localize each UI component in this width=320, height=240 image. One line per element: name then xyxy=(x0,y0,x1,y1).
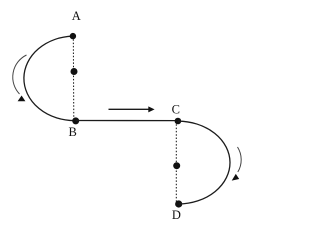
straight direction arrow above wire xyxy=(109,108,150,110)
node A dot xyxy=(70,33,76,39)
svg-text:C: C xyxy=(172,103,180,117)
left curved direction arrow arc xyxy=(13,55,27,94)
svg-text:A: A xyxy=(72,9,81,23)
node D dot xyxy=(175,200,182,207)
svg-text:D: D xyxy=(172,208,181,222)
left arrowhead xyxy=(18,96,26,102)
left semicircular arc A to B xyxy=(24,36,76,120)
wire B to C horizontal line xyxy=(76,120,178,122)
right semicircular arc C to D xyxy=(178,121,230,204)
right curved direction arrow arc xyxy=(238,147,242,172)
left dotted line A to B xyxy=(72,36,75,121)
node C dot xyxy=(175,118,182,125)
right arrowhead xyxy=(232,174,240,181)
right dotted line C to D xyxy=(175,121,177,204)
midpoint dot left xyxy=(71,68,78,75)
svg-text:B: B xyxy=(69,125,77,139)
midpoint dot right xyxy=(173,162,180,169)
node B dot xyxy=(72,117,79,124)
